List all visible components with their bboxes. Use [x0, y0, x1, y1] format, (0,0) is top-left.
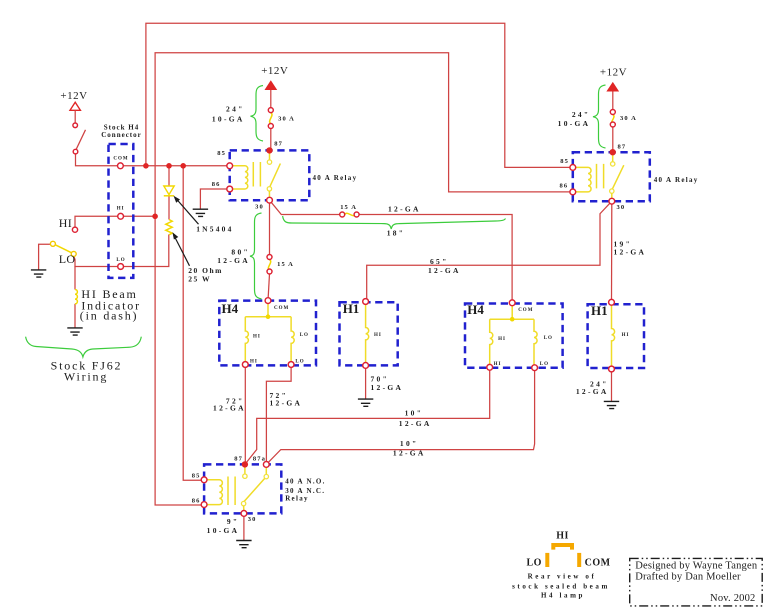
- svg-text:(in dash): (in dash): [80, 308, 139, 322]
- svg-text:24": 24": [572, 110, 591, 119]
- svg-text:+12V: +12V: [600, 66, 627, 78]
- svg-text:87: 87: [274, 141, 283, 148]
- svg-text:87: 87: [618, 144, 627, 151]
- relay U2 terminals: [570, 149, 616, 204]
- svg-text:12-GA: 12-GA: [213, 404, 246, 413]
- svg-text:85: 85: [217, 150, 226, 157]
- svg-text:LO: LO: [526, 557, 541, 568]
- ground (right H1): [604, 401, 619, 408]
- svg-text:H4: H4: [467, 302, 484, 317]
- stock connector pin COM: [113, 156, 128, 168]
- svg-text:COM: COM: [113, 156, 128, 161]
- svg-text:40 A Relay: 40 A Relay: [313, 174, 358, 182]
- wire HI beam indicator drop: [74, 267, 76, 290]
- connector J1 (left H4) box: [219, 301, 316, 366]
- svg-text:87: 87: [234, 456, 243, 463]
- wire +12V right feed: [612, 89, 614, 109]
- svg-text:LO: LO: [59, 252, 76, 266]
- lamp rear view HI contact: [553, 545, 572, 550]
- svg-text:HI: HI: [117, 207, 125, 212]
- svg-text:12-GA: 12-GA: [576, 387, 609, 396]
- wire second loop to right relay 86: [155, 53, 573, 217]
- svg-text:18": 18": [387, 228, 406, 237]
- relay U1 contact: [267, 153, 280, 198]
- connector J1 pins: [242, 298, 294, 368]
- relay U2 pin labels: [559, 144, 626, 212]
- svg-text:10-GA: 10-GA: [212, 115, 245, 124]
- wire right relay 30 to 65in run: [367, 201, 612, 301]
- wire LO switch to ground: [39, 244, 51, 270]
- relay U2 coil: [576, 167, 591, 191]
- fuse F1 30A (middle feed): [268, 108, 295, 129]
- wire indicator to ground: [74, 304, 76, 328]
- svg-text:85: 85: [192, 473, 201, 480]
- label 65in 12-GA: [428, 257, 461, 275]
- stock connector pin HI: [117, 207, 125, 220]
- connector J4 (right H1) box: [588, 303, 644, 368]
- resistor 20 Ohm 25W: [166, 220, 172, 235]
- wire bottom relay 30 to ground: [243, 513, 245, 540]
- svg-text:COM: COM: [518, 308, 533, 313]
- label rear view caption: [512, 573, 610, 600]
- wire HI row: [75, 216, 155, 227]
- wire left relay 30 to horizontal 12-GA run: [270, 200, 340, 214]
- connector J2 pins: [363, 299, 369, 369]
- svg-text:stock sealed beam: stock sealed beam: [512, 582, 610, 590]
- svg-text:10-GA: 10-GA: [558, 119, 591, 128]
- label Stock FJ62 Wiring: [51, 358, 123, 383]
- ground (HI beam indicator): [67, 328, 82, 335]
- svg-text:12-GA: 12-GA: [371, 383, 404, 392]
- label 70in 12-GA: [371, 375, 404, 392]
- svg-text:HI: HI: [59, 216, 72, 230]
- wire +12V mid feed: [270, 89, 272, 107]
- wire 15A fuse to left H4 COM: [268, 274, 270, 301]
- svg-text:LO: LO: [544, 336, 553, 341]
- brace 80in 12-GA: [250, 213, 262, 299]
- svg-text:20 Ohm: 20 Ohm: [188, 266, 223, 275]
- svg-text:H4: H4: [222, 301, 239, 316]
- label 20 Ohm 25 W: [172, 232, 223, 283]
- +12V source middle: [261, 65, 288, 89]
- svg-text:COM: COM: [585, 557, 611, 568]
- svg-text:H1: H1: [591, 303, 608, 318]
- wire right relay 30 to right H1 19in: [611, 201, 613, 302]
- svg-text:HI: HI: [250, 360, 258, 365]
- svg-text:30 A: 30 A: [620, 115, 637, 122]
- relay U2 contact: [610, 154, 624, 198]
- relay U1 terminals: [227, 147, 273, 203]
- svg-text:86: 86: [559, 183, 568, 190]
- relay U2 (right 40A) box: [573, 152, 699, 201]
- svg-text:12-GA: 12-GA: [393, 448, 426, 457]
- wire 10in run right H4 HI to bottom relay 87: [245, 367, 490, 464]
- +12V source right: [600, 66, 627, 91]
- label 10in 12-GA (upper run): [399, 409, 432, 428]
- svg-text:12-GA: 12-GA: [270, 399, 303, 408]
- connector J2 (middle H1) box: [340, 301, 398, 365]
- svg-text:HI: HI: [622, 333, 630, 338]
- label 80in 12-GA: [217, 247, 250, 264]
- svg-text:H1: H1: [343, 301, 360, 316]
- wire long vertical to bottom relay 86: [155, 216, 204, 505]
- svg-text:10": 10": [405, 409, 424, 418]
- svg-text:+12V: +12V: [261, 65, 288, 77]
- wire COM-row junction down to bottom relay 85: [183, 166, 204, 480]
- connector J4 filament: [612, 305, 615, 366]
- wire middle H1 to ground: [365, 365, 367, 399]
- svg-text:12-GA: 12-GA: [217, 256, 250, 265]
- svg-text:HI: HI: [498, 337, 506, 342]
- label 24in 10-GA (right): [558, 110, 591, 128]
- svg-text:15 A: 15 A: [277, 261, 294, 268]
- title box: [630, 558, 763, 606]
- svg-text:HI: HI: [556, 530, 569, 541]
- svg-text:30 A: 30 A: [278, 115, 295, 122]
- wire right H1 to ground: [611, 369, 613, 401]
- node junction dots on COM row: [143, 163, 186, 169]
- svg-text:H4 lamp: H4 lamp: [541, 592, 585, 600]
- fuse F2 30A (right feed): [610, 110, 637, 128]
- svg-text:Designed by Wayne Tangen: Designed by Wayne Tangen: [635, 561, 758, 572]
- svg-text:30: 30: [617, 204, 626, 211]
- relay U3 contact: [241, 467, 268, 512]
- svg-text:LO: LO: [540, 362, 549, 367]
- label 9in 10-GA: [207, 517, 240, 535]
- LO switch (yellow, dash): [50, 241, 76, 256]
- svg-text:65": 65": [430, 257, 449, 266]
- wire left relay 30 down to 15A fuse: [269, 200, 271, 254]
- wire diode to resistor: [168, 197, 170, 220]
- relay U1 core bars: [253, 162, 260, 187]
- brace 24in 10-GA (right feed): [593, 85, 606, 148]
- HI beam indicator lamp coil: [75, 290, 77, 304]
- relay U2 core bars: [597, 164, 604, 189]
- svg-text:COM: COM: [274, 306, 289, 311]
- connector J1 filaments: [245, 304, 294, 362]
- svg-text:Relay: Relay: [285, 495, 309, 503]
- svg-text:HI: HI: [253, 334, 261, 339]
- fuse F4 15A (horizontal 12-GA run): [340, 204, 359, 217]
- label 24in 10-GA (middle): [212, 104, 245, 123]
- relay U1 pin labels: [212, 141, 283, 211]
- svg-text:Wiring: Wiring: [64, 370, 108, 384]
- ground (LO switch): [31, 270, 46, 277]
- svg-text:12-GA: 12-GA: [388, 205, 421, 214]
- svg-text:12-GA: 12-GA: [614, 248, 647, 257]
- +12V source left: [60, 90, 87, 123]
- relay U3 pin labels: [192, 456, 266, 523]
- svg-text:10": 10": [400, 439, 419, 448]
- svg-text:87a: 87a: [253, 456, 266, 463]
- connector J2 filament: [366, 305, 369, 363]
- connector J4 pins: [609, 299, 615, 372]
- wire LO row: [74, 235, 169, 267]
- relay U3 terminals: [201, 461, 269, 516]
- label HI Beam Indicator: [80, 287, 141, 323]
- wire 10in run right H4 LO to bottom relay 87a: [266, 368, 534, 465]
- svg-text:9": 9": [227, 517, 240, 526]
- label 72in 12-GA (middle): [270, 391, 303, 407]
- fuse F3 15A (vertical, left H4 COM feed): [267, 255, 294, 275]
- svg-text:Connector: Connector: [101, 131, 142, 139]
- svg-text:86: 86: [192, 497, 201, 504]
- connector J3 pin labels: [494, 308, 553, 367]
- svg-text:40 A N.O.: 40 A N.O.: [285, 477, 325, 485]
- relay U3 core bars: [228, 477, 235, 506]
- stock connector pin LO: [116, 258, 125, 269]
- brace stock FJ62 wiring (horizontal): [26, 337, 142, 357]
- svg-text:Drafted by Dan Moeller: Drafted by Dan Moeller: [635, 572, 741, 583]
- lamp rear view COM contact: [577, 553, 581, 567]
- wire left H4 HI to bottom relay 87: [244, 365, 246, 465]
- label 24in 12-GA (right H1): [576, 380, 609, 397]
- svg-text:85: 85: [560, 158, 569, 165]
- svg-text:LO: LO: [300, 333, 309, 338]
- wire 30A fuse to 87 left relay: [270, 128, 272, 150]
- ground (bottom relay 30): [236, 541, 251, 548]
- svg-text:30: 30: [255, 203, 264, 210]
- svg-text:+12V: +12V: [60, 90, 87, 102]
- relay U3 (bottom 40A NO / 30A NC) box: [204, 464, 326, 513]
- svg-text:12-GA: 12-GA: [399, 419, 432, 428]
- wire COM row: [76, 154, 230, 166]
- wire 30A fuse to 87 right relay: [612, 127, 614, 152]
- relay U1 coil: [233, 166, 248, 189]
- lamp rear view LO contact: [545, 553, 549, 567]
- svg-text:30: 30: [248, 516, 257, 523]
- connector J3 filaments: [490, 306, 537, 365]
- ground (middle H1): [358, 399, 373, 406]
- connector J3 (right H4) box: [465, 302, 563, 368]
- svg-text:25 W: 25 W: [188, 275, 211, 284]
- svg-text:24": 24": [226, 104, 245, 113]
- svg-text:10-GA: 10-GA: [207, 526, 240, 535]
- relay U3 coil: [207, 480, 223, 505]
- brace 18in (horizontal): [283, 216, 506, 229]
- node HI stub terminal: [72, 227, 77, 232]
- label 1N5404: [174, 196, 234, 234]
- wire 15A horizontal fuse to right H4 COM: [359, 215, 512, 303]
- svg-text:Rear view of: Rear view of: [528, 573, 597, 581]
- svg-text:HI: HI: [494, 362, 502, 367]
- wire left H4 LO to bottom relay 87a: [266, 365, 291, 465]
- diode 1N5404: [164, 186, 174, 196]
- brace 24in 10-GA (middle feed): [251, 86, 264, 142]
- svg-text:LO: LO: [116, 258, 125, 263]
- svg-text:86: 86: [212, 181, 221, 188]
- relay U1 (left 40A) box: [230, 150, 358, 200]
- svg-text:1N5404: 1N5404: [196, 225, 233, 234]
- svg-text:15 A: 15 A: [340, 204, 357, 211]
- svg-text:HI: HI: [374, 333, 382, 338]
- ground (left relay 86): [193, 209, 208, 216]
- node junction dot on HI row: [152, 214, 158, 220]
- wire top loop to right relay 85: [146, 23, 573, 167]
- label 72in 12-GA (left): [213, 396, 246, 412]
- label 10in 12-GA (lower run): [393, 439, 426, 457]
- stock H4 connector box: [101, 123, 142, 278]
- connector J3 pins: [487, 300, 538, 371]
- svg-text:LO: LO: [295, 360, 304, 365]
- label 19in 12-GA: [614, 240, 647, 257]
- wire left relay 86 to ground: [200, 189, 229, 209]
- svg-text:12-GA: 12-GA: [428, 266, 461, 275]
- svg-text:Nov. 2002: Nov. 2002: [710, 593, 755, 604]
- svg-text:40 A Relay: 40 A Relay: [654, 176, 699, 184]
- wire diode branch upper: [168, 166, 170, 186]
- connector J1 pin labels: [250, 306, 309, 365]
- switch S1 (dash HI/LO feed): [73, 123, 86, 154]
